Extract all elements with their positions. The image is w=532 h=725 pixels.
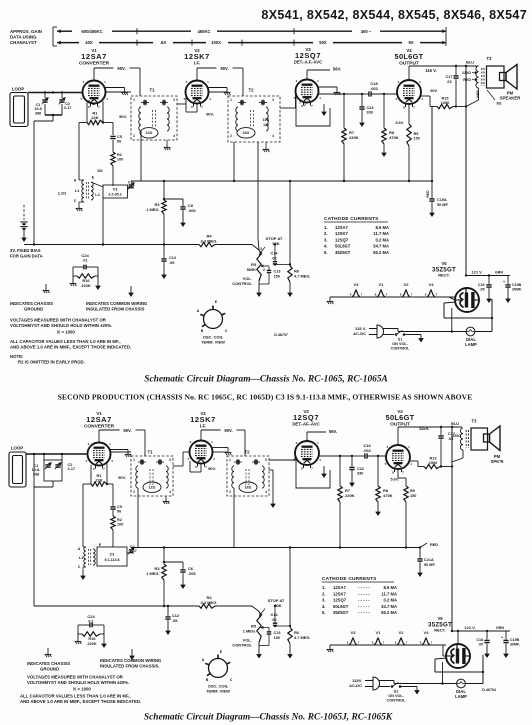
svg-text:30MF.: 30MF. [510,642,520,646]
svg-text:RECT.: RECT. [438,273,450,278]
svg-text:C3: C3 [110,553,115,557]
svg-text:12SK7: 12SK7 [335,231,348,236]
svg-text:.02: .02 [271,618,276,622]
capacitor C23 330 [361,94,363,106]
svg-text:12SA7: 12SA7 [86,415,112,424]
svg-text:T2: T2 [244,450,250,455]
svg-text:1: 1 [133,98,135,102]
svg-text:.02: .02 [271,256,276,260]
svg-text:C17: C17 [446,75,453,79]
svg-text:C13: C13 [274,631,281,635]
wire V3 to V4 lower [319,455,352,457]
svg-text:2-17: 2-17 [128,184,135,188]
svg-text:2: 2 [133,490,135,494]
svg-text:12Ω: 12Ω [149,486,156,490]
svg-text:1 MEG.: 1 MEG. [146,207,159,212]
svg-text:R9: R9 [414,132,419,136]
svg-text:2.: 2. [322,591,326,596]
svg-text:C: C [74,199,77,203]
svg-text:3: 3 [173,98,175,102]
svg-text:.002: .002 [363,448,372,453]
trimmer C1 [44,93,46,99]
svg-text:C22: C22 [357,467,364,471]
V2 lower screen ground [213,447,229,449]
svg-text:90V.: 90V. [206,112,214,117]
svg-text:5.: 5. [324,250,328,255]
wire loop to V1 lower [26,453,88,455]
svg-text:CHANALYST: CHANALYST [10,40,37,45]
B- bus [131,180,432,182]
svg-text:115 V.: 115 V. [425,68,437,73]
padder C3 lower [97,547,127,566]
wire V2 plate to T2 [209,91,229,93]
svg-text:470K: 470K [383,493,393,498]
heater string lower [330,644,446,646]
svg-text:12SA7: 12SA7 [335,225,348,230]
svg-text:TERM. VIEW: TERM. VIEW [206,689,230,694]
svg-text:R15: R15 [442,97,449,101]
svg-text:12SK7: 12SK7 [333,591,346,596]
svg-text:A: A [202,658,205,662]
svg-text:C14: C14 [271,252,279,256]
svg-text:9Ω: 9Ω [496,102,501,106]
svg-text:220K: 220K [345,493,355,498]
svg-text:ALL CAPACITOR VALUES LESS THAN: ALL CAPACITOR VALUES LESS THAN 1.0 ARE I… [20,694,131,699]
svg-text:4.7 MEG.: 4.7 MEG. [294,273,310,278]
legend chassis ground symbol [45,288,47,290]
svg-text:121 V.: 121 V. [471,270,482,275]
capacitor C12 .05 lower [167,606,169,616]
svg-text:VOLTOHMYST AND SHOULD HOLD WIT: VOLTOHMYST AND SHOULD HOLD WITHIN ±20%. [10,323,112,328]
svg-text:C19B: C19B [510,638,520,642]
svg-text:C: C [230,678,233,682]
svg-text:INSULATED FROM CHASSIS.: INSULATED FROM CHASSIS. [100,664,160,669]
svg-text:8: 8 [88,100,90,104]
svg-text:C5: C5 [117,135,122,139]
svg-text:NOTE:: NOTE: [10,354,24,359]
svg-text:34.7 MA: 34.7 MA [373,244,389,249]
svg-text:90V.: 90V. [220,66,228,71]
resistor R9 150 cathode [408,104,410,124]
svg-text:Schematic Circuit Diagram—Chas: Schematic Circuit Diagram—Chassis No. RC… [144,375,388,385]
svg-text:- - - - -: - - - - - [358,604,370,609]
V1 plate 90V lead [93,68,95,78]
svg-text:CATHODE CURRENTS: CATHODE CURRENTS [324,216,379,222]
wire V3 plate to V4 grid [319,93,363,95]
svg-text:VOLTAGES MEASURED WITH CHANALY: VOLTAGES MEASURED WITH CHANALYST OR [27,675,124,680]
svg-text:5Ω: 5Ω [97,169,102,173]
svg-text:220K: 220K [81,283,90,288]
svg-text:T3: T3 [472,419,478,424]
svg-text:C21A: C21A [424,558,434,562]
svg-text:C: C [78,565,81,569]
svg-text:ON VOL.: ON VOL. [392,342,408,346]
gain ruler line 1 [57,30,72,32]
svg-text:SPK'R: SPK'R [491,459,505,464]
V2 lower plate 90V lead [200,430,202,438]
trimmer C1 lower [44,460,62,481]
capacitor C18 .05 lower [486,631,488,639]
capacitor C19B 30MF [507,276,509,284]
tube V3 lower [295,441,319,465]
svg-text:121 V.: 121 V. [464,625,475,630]
wire T1 to V2 lower [173,465,183,467]
V3 lower grid lead [306,432,308,439]
svg-text:5.6V.: 5.6V. [395,121,404,125]
wire padder to AVC bus [102,198,104,245]
svg-text:.01: .01 [82,259,87,263]
tube V2 lower [190,441,213,464]
svg-text:DATA USING: DATA USING [10,35,37,40]
svg-text:.05: .05 [172,618,178,623]
svg-text:330: 330 [367,110,373,114]
svg-text:30MF.: 30MF. [512,287,522,291]
svg-text:GROUND: GROUND [40,667,59,672]
svg-text:8.6 MA: 8.6 MA [376,225,390,230]
svg-text:34.7 MA: 34.7 MA [381,604,397,609]
wiper bus to R6 [275,264,290,266]
svg-text:3.: 3. [322,598,326,603]
svg-text:T2: T2 [248,88,254,93]
svg-text:C19B: C19B [512,283,522,287]
svg-text:C13: C13 [274,270,281,274]
svg-text:V1: V1 [379,282,385,287]
resistor R8 470K [383,94,385,128]
svg-text:90V.: 90V. [123,428,131,433]
svg-text:A: A [197,309,200,313]
wire V2 plate to T2 lower [213,451,228,453]
T2 lower grounds [233,488,235,548]
AVC bus lower [34,605,199,607]
wire loop to V1 grid [28,92,83,94]
svg-text:2: 2 [133,134,135,138]
svg-text:150: 150 [274,274,280,278]
wire C1 C2 bottom [45,114,62,116]
trimmer C4 lower [127,552,134,554]
svg-text:A: A [78,547,81,551]
svg-text:C24: C24 [81,253,89,258]
svg-text:50L6GT: 50L6GT [386,413,415,422]
svg-text:55.2 MA: 55.2 MA [381,610,397,615]
svg-text:ALL CAPACITOR VALUES LESS THAN: ALL CAPACITOR VALUES LESS THAN 1.0 ARE I… [10,339,121,344]
svg-text:55.2 MA: 55.2 MA [373,250,389,255]
resistor R6 4.7MEG lower [288,628,292,644]
svg-text:5.: 5. [322,610,326,615]
svg-text:4: 4 [173,134,175,138]
V5 lower cathode wiring loop [435,658,447,659]
svg-text:100X: 100X [211,40,221,45]
wire plug to dial lamp [397,329,399,332]
legend chassis ground lower [47,652,49,654]
svg-text:.002: .002 [370,86,379,91]
tube V1 12SA7 [83,81,106,104]
capacitor C5 56 [112,123,114,136]
capacitor C19B 30MF lower [505,631,507,639]
wire T1 to V2 grid [177,103,186,105]
svg-text:.05: .05 [478,642,483,646]
svg-text:4.: 4. [322,604,326,609]
svg-text:- - - - -: - - - - - [358,591,370,596]
svg-text:I.F.: I.F. [200,424,206,430]
svg-text:56V.: 56V. [333,67,341,72]
svg-text:2: 2 [263,268,265,272]
svg-text:L2: L2 [95,193,99,197]
svg-text:3V. FIXED BIAS: 3V. FIXED BIAS [10,248,41,253]
RED filter lead C19A [431,107,433,181]
svg-text:150: 150 [414,137,420,141]
svg-text:S1: S1 [398,338,403,342]
V3 return box [296,97,330,126]
T1 lower grounds [165,496,167,499]
svg-text:B: B [206,678,209,682]
svg-text:3.2-35.2: 3.2-35.2 [108,193,121,197]
capacitor C22 330 lower [351,456,353,466]
wire plug to dial lamp lower [393,681,395,684]
svg-text:12SK7: 12SK7 [190,415,216,424]
capacitor C5 56 lower [112,484,114,506]
tube V2 12SK7 [186,81,209,104]
wire bus to vol area [289,181,291,265]
heater string [330,296,455,298]
svg-text:D-48797: D-48797 [274,333,288,337]
svg-text:4: 4 [265,490,267,494]
svg-text:11.7 MA: 11.7 MA [381,591,397,596]
svg-text:FOR GAIN DATA: FOR GAIN DATA [10,254,43,259]
svg-text:V5: V5 [441,261,447,266]
svg-text:9X: 9X [408,40,413,45]
svg-text:3: 3 [260,247,262,251]
svg-text:CONTROL: CONTROL [387,699,406,703]
svg-text:50X: 50X [319,40,327,45]
svg-text:17: 17 [92,102,96,106]
V5 cathode wiring loop [444,302,456,303]
svg-text:AND ABOVE 1.0 ARE IN MMF., EXC: AND ABOVE 1.0 ARE IN MMF., EXCEPT THOSE … [10,345,131,350]
AC plug [369,328,377,330]
svg-text:4.: 4. [324,244,328,249]
trimmer C4 2-17 [128,187,135,189]
svg-text:LOOP: LOOP [11,446,24,451]
svg-text:50L6GT: 50L6GT [335,244,351,249]
svg-text:470K: 470K [389,135,399,140]
svg-text:4: 4 [272,134,274,138]
tube V1 lower [88,443,111,466]
svg-text:+: + [503,280,505,284]
capacitor C6 .005 lower [164,561,183,563]
svg-text:TERM. VIEW: TERM. VIEW [201,340,225,345]
padder C3 [103,185,128,198]
svg-text:- - - - -: - - - - - [358,585,370,590]
svg-text:.05: .05 [169,260,175,265]
svg-text:.03: .03 [446,80,451,84]
svg-text:R9: R9 [410,489,415,493]
svg-text:1.2Ω: 1.2Ω [58,192,66,196]
svg-text:12SQ7: 12SQ7 [333,598,347,603]
resistor R7 220K [343,94,345,128]
svg-text:50 MF.: 50 MF. [437,203,448,207]
svg-text:2: 2 [230,134,232,138]
svg-text:V4: V4 [429,282,435,287]
svg-text:56V.: 56V. [329,429,337,434]
svg-text:8X541, 8X542, 8X544, 8X545, 8X: 8X541, 8X542, 8X544, 8X545, 8X546, 8X547 [261,8,527,22]
svg-text:L1: L1 [75,189,79,193]
svg-text:INDICATES COMMON WIRING: INDICATES COMMON WIRING [86,301,148,306]
svg-text:C5: C5 [117,505,122,509]
B- bus lower [131,547,420,549]
svg-text:.005: .005 [188,571,196,576]
tube V3 12SQ7 [296,80,319,103]
svg-text:C3: C3 [113,188,118,192]
svg-text:35Z5GT: 35Z5GT [333,610,349,615]
svg-text:INDICATES CHASSIS: INDICATES CHASSIS [27,661,70,666]
svg-text:T1: T1 [149,88,155,93]
svg-text:R13: R13 [430,457,437,461]
svg-text:SPEAKER: SPEAKER [500,96,522,101]
svg-text:90V.: 90V. [118,475,126,480]
tube V4 lower [386,445,410,469]
oscillator coil terminal view lower [209,659,228,678]
svg-text:APPROX. GAIN: APPROX. GAIN [10,29,42,34]
svg-text:V3: V3 [351,630,357,635]
V2 plate 90V lead [196,68,198,78]
AVC bus [24,244,199,246]
svg-text:1 MEG.: 1 MEG. [146,571,159,576]
svg-text:12SK7: 12SK7 [184,52,210,61]
svg-text:4.7 MEG.: 4.7 MEG. [294,635,310,640]
svg-text:ON VOL.: ON VOL. [388,694,404,698]
B+ rail lower [451,427,453,631]
svg-text:90V.: 90V. [430,89,437,93]
svg-text:2-17: 2-17 [130,549,137,553]
svg-text:LAMP: LAMP [455,694,467,699]
wire loop return lower [52,481,54,487]
svg-text:I.F.: I.F. [194,61,200,67]
svg-text:9.1-113.8: 9.1-113.8 [105,558,120,562]
svg-text:5.6V.: 5.6V. [390,478,399,482]
svg-text:AC-DC: AC-DC [353,331,366,336]
svg-text:100: 100 [117,522,123,526]
wire T2 sec to volume pot [257,142,259,238]
tube V4 50L6GT [397,80,421,104]
svg-text:35Z5GT: 35Z5GT [335,250,351,255]
B+ line down right [465,66,467,276]
svg-text:2: 2 [304,103,306,107]
svg-text:50L6GT: 50L6GT [395,52,424,61]
svg-text:22K: 22K [91,115,98,120]
svg-text:8.6 MA: 8.6 MA [384,585,398,590]
svg-text:L1: L1 [79,556,83,560]
svg-text:56: 56 [117,139,121,143]
wire V1 plate to T1 [106,91,132,93]
svg-text:V5: V5 [437,616,443,621]
PM speaker [500,73,507,81]
svg-text:12SQ7: 12SQ7 [335,237,349,242]
svg-text:RED: RED [463,78,471,82]
svg-text:100: 100 [117,157,123,161]
svg-text:C19A: C19A [437,198,447,202]
svg-text:3: 3 [265,458,267,462]
capacitor C17 .03 [455,66,457,75]
svg-text:90V.: 90V. [224,428,232,433]
svg-text:C: C [225,329,228,333]
resistor R2 100 lower [111,516,115,530]
V1 lower cathode rails [90,465,92,484]
T2 ground [265,142,267,147]
svg-text:V3: V3 [354,282,360,287]
wire T2 pin2 to bus [233,142,235,181]
svg-text:16Ω: 16Ω [245,486,252,490]
legend common wiring lower [131,649,133,656]
svg-text:C23: C23 [367,106,374,110]
svg-text:C17: C17 [448,432,455,436]
capacitor C12 .05 [163,245,165,258]
resistor R6 4.7MEG [289,265,291,267]
dial lamp lower [457,679,466,688]
wire T1 sec to bus [140,140,142,181]
svg-text:220K: 220K [349,135,359,140]
svg-text:150: 150 [274,636,280,640]
svg-text:90V.: 90V. [117,66,125,71]
svg-text:D-46794: D-46794 [482,688,496,692]
svg-text:V2: V2 [399,630,405,635]
capacitor C8 .005 [164,198,183,200]
dial lamp [466,327,475,336]
svg-text:1: 1 [229,458,231,462]
svg-text:GRN: GRN [495,271,503,275]
svg-text:56: 56 [117,509,121,513]
svg-text:.05: .05 [480,287,485,291]
switch S1 lower [379,680,394,682]
svg-text:400 ~: 400 ~ [361,29,372,34]
svg-text:3: 3 [272,98,274,102]
svg-text:AC-DC: AC-DC [349,683,362,688]
gain ruler line 2 [57,42,79,44]
wire V1 plate to T1 lower [111,451,132,453]
svg-text:1: 1 [133,458,135,462]
svg-text:16Ω: 16Ω [243,131,250,135]
svg-text:CONTROL: CONTROL [391,347,410,351]
V1 lower screen ground [111,449,129,451]
capacitor C15 .05 [488,276,490,284]
svg-text:A: A [74,179,77,183]
V4 plate to T3 BLU [408,66,410,78]
resistor R7 220K lower [339,456,341,486]
svg-text:SECOND PRODUCTION (CHASSIS No: SECOND PRODUCTION (CHASSIS No. RC 1065C,… [58,393,473,402]
svg-text:0.1: 0.1 [88,620,93,624]
svg-text:150: 150 [410,494,416,498]
svg-text:INDICATES CHASSIS: INDICATES CHASSIS [10,301,53,306]
resistor R3 1MEG [163,181,165,200]
svg-text:- - - - -: - - - - - [358,610,370,615]
svg-text:GRN: GRN [496,626,504,630]
svg-text:BLU: BLU [451,422,459,426]
wire T3 RED to B+ [478,88,480,100]
svg-text:90V.: 90V. [119,114,127,119]
V2 screen ground [209,87,228,89]
svg-text:+: + [501,636,503,640]
V1 lower plate 90V lead [98,430,100,440]
svg-text:RED: RED [430,543,438,547]
svg-text:T3: T3 [487,56,493,61]
resistor R8 470K lower [377,456,379,486]
V3 grid cap lead [306,70,308,77]
tube V5 lower [446,644,470,668]
svg-text:C24: C24 [87,614,95,619]
svg-text:10Ω: 10Ω [263,118,270,122]
resistor R3 1MEG lower [163,548,165,565]
PM speaker lower [484,434,490,442]
svg-text:2-17: 2-17 [64,106,72,110]
svg-text:11.7 MA: 11.7 MA [373,231,389,236]
